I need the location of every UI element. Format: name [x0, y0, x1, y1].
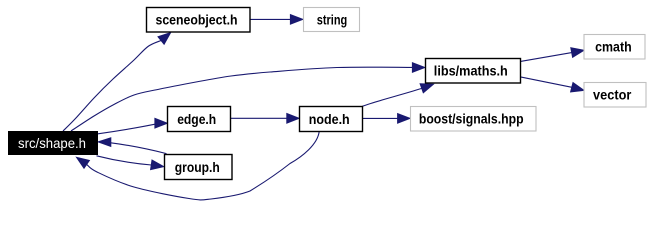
wire node.h->src/shape.h: [87, 132, 320, 200]
svg-text:string: string: [317, 11, 348, 27]
arrowhead libs/maths.h->cmath: [571, 48, 584, 58]
arrowhead group.h->src/shape.h: [98, 138, 111, 147]
node group.h: [165, 155, 233, 180]
wire group.h->src/shape.h: [111, 143, 167, 154]
node boost/signals.hpp: [411, 107, 537, 132]
wire libs/maths.h->vector: [521, 77, 572, 87]
arrowhead src/shape.h->libs/maths.h: [412, 63, 424, 73]
node vector: [584, 83, 646, 108]
arrowhead node.h->boost/signals.hpp: [398, 114, 410, 124]
wire node.h->libs/maths.h: [362, 88, 422, 106]
wire src/shape.h->edge.h: [98, 124, 155, 134]
arrowhead src/shape.h->edge.h: [155, 118, 167, 128]
svg-text:node.h: node.h: [309, 111, 350, 127]
svg-text:edge.h: edge.h: [177, 111, 216, 127]
arrowhead node.h->libs/maths.h: [420, 84, 433, 93]
svg-text:vector: vector: [593, 86, 632, 102]
node cmath: [584, 35, 645, 60]
svg-text:libs/maths.h: libs/maths.h: [434, 63, 508, 79]
wire edge.h->node.h: [230, 117, 287, 119]
wire src/shape.h->sceneobject.h: [63, 41, 161, 132]
svg-text:src/shape.h: src/shape.h: [18, 135, 86, 151]
svg-text:sceneobject.h: sceneobject.h: [156, 12, 238, 28]
arrowhead src/shape.h->group.h: [151, 160, 164, 170]
wire sceneobject.h->string: [250, 18, 291, 20]
node node.h: [300, 107, 363, 132]
arrowhead libs/maths.h->vector: [571, 83, 584, 92]
arrowhead src/shape.h->sceneobject.h: [158, 33, 171, 45]
node sceneobject.h: [147, 8, 251, 33]
wire node.h->boost/signals.hpp: [363, 117, 398, 119]
node src/shape.h: [8, 131, 98, 155]
wire src/shape.h->libs/maths.h: [71, 67, 412, 131]
arrowhead node.h->src/shape.h: [77, 157, 90, 168]
svg-text:boost/signals.hpp: boost/signals.hpp: [419, 111, 524, 127]
node string: [304, 8, 360, 32]
wire src/shape.h->group.h: [97, 156, 152, 165]
node edge.h: [168, 107, 231, 132]
wire libs/maths.h->cmath: [521, 53, 572, 62]
svg-text:group.h: group.h: [175, 159, 220, 175]
arrowhead sceneobject.h->string: [290, 15, 302, 25]
node libs/maths.h: [426, 59, 521, 84]
arrowhead edge.h->node.h: [287, 114, 299, 124]
svg-text:cmath: cmath: [595, 38, 632, 54]
